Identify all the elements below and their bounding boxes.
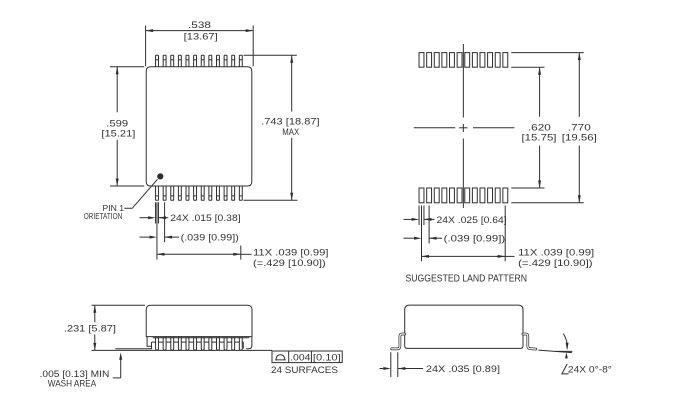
side view lead 3 bbox=[171, 338, 174, 350]
dimension .599 [15.21] body length bbox=[101, 67, 144, 186]
top view pin 6 (top row) bbox=[194, 55, 197, 67]
side view: wash area line bbox=[115, 346, 151, 348]
dimension .770 [19.56] outer pad span bbox=[511, 53, 597, 203]
end view: left gull-wing lead bbox=[392, 334, 405, 349]
side view lead 8 bbox=[209, 338, 212, 350]
side view lead 12 bbox=[239, 338, 242, 350]
top view pin 7 (bottom row) bbox=[201, 186, 204, 200]
land pad 7 (top row) bbox=[465, 53, 470, 68]
dimension 24X .015 [0.38] pin width bbox=[140, 202, 241, 224]
dimension 24X .035 [0.89] foot length bbox=[380, 352, 501, 377]
land pad 3 (bottom row) bbox=[434, 188, 439, 203]
top view pin 11 (top row) bbox=[232, 55, 235, 67]
land pad 2 (bottom row) bbox=[427, 188, 432, 203]
top view: package body outline bbox=[146, 67, 252, 186]
top view pin 10 (bottom row) bbox=[224, 186, 227, 200]
dimension .743 [18.87] MAX overall length bbox=[244, 55, 320, 200]
svg-text:(.039 [0.99]): (.039 [0.99]) bbox=[181, 233, 239, 244]
side view lead 6 bbox=[194, 338, 197, 350]
top view pin 6 (bottom row) bbox=[194, 186, 197, 200]
svg-text:11X .039 [0.99]: 11X .039 [0.99] bbox=[253, 247, 329, 258]
land pad 1 (bottom row) bbox=[419, 188, 424, 203]
land pad 11 (bottom row) bbox=[495, 188, 500, 203]
side view: lead shoulder line bbox=[153, 337, 250, 339]
land pattern horizontal centerline bbox=[414, 127, 515, 129]
top view pin 3 (top row) bbox=[171, 55, 174, 67]
top view pin 12 (bottom row) bbox=[239, 186, 242, 200]
land pad 12 (bottom row) bbox=[503, 188, 508, 203]
svg-text:MAX: MAX bbox=[282, 127, 299, 137]
land pad 9 (top row) bbox=[480, 53, 485, 68]
land pad 10 (top row) bbox=[488, 53, 493, 68]
svg-text:[15.75]: [15.75] bbox=[522, 133, 557, 144]
top view pin 5 (top row) bbox=[186, 55, 189, 67]
top view pin 8 (top row) bbox=[209, 55, 212, 67]
caption SUGGESTED LAND PATTERN bbox=[406, 274, 528, 285]
label 24 SURFACES bbox=[271, 365, 338, 376]
top view pin 4 (top row) bbox=[178, 55, 181, 67]
side view lead 1 bbox=[156, 338, 159, 350]
side view lead 9 bbox=[216, 338, 219, 350]
end view: right gull-wing lead bbox=[523, 334, 536, 349]
svg-text:11X .039 [0.99]: 11X .039 [0.99] bbox=[518, 247, 594, 258]
svg-text:(=.429 [10.90]): (=.429 [10.90]) bbox=[253, 258, 326, 269]
side view: lead frame rail line bbox=[152, 341, 244, 343]
top view pin 3 (bottom row) bbox=[171, 186, 174, 200]
svg-text:[0.10]: [0.10] bbox=[313, 352, 341, 363]
angle dimension arc 24X 0-8 deg bbox=[562, 334, 612, 376]
svg-text:24X .035 [0.89]: 24X .035 [0.89] bbox=[426, 364, 500, 375]
top view pin 1 (top row) bbox=[156, 55, 159, 67]
land pad 9 (bottom row) bbox=[480, 188, 485, 203]
land pad 8 (top row) bbox=[472, 53, 477, 68]
svg-text:24X .025 [0.64]: 24X .025 [0.64] bbox=[437, 215, 507, 226]
svg-text:(=.429 [10.90]): (=.429 [10.90]) bbox=[518, 258, 593, 269]
dimension (.039 [0.99]) pad pitch bbox=[404, 206, 506, 262]
side view lead 10 bbox=[224, 338, 227, 350]
side view lead 5 bbox=[186, 338, 189, 350]
svg-text:[15.21]: [15.21] bbox=[101, 129, 135, 140]
land pad 2 (top row) bbox=[427, 53, 432, 68]
top view pin 11 (bottom row) bbox=[232, 186, 235, 200]
top view pin 10 (top row) bbox=[224, 55, 227, 67]
svg-text:SUGGESTED LAND PATTERN: SUGGESTED LAND PATTERN bbox=[406, 274, 528, 285]
dimension (.039 [0.99]) pin pitch bbox=[140, 202, 239, 259]
land pad 12 (top row) bbox=[503, 53, 508, 68]
svg-text:.743 [18.87]: .743 [18.87] bbox=[261, 117, 320, 128]
land pad 5 (bottom row) bbox=[450, 188, 455, 203]
dimension .538 [13.67] package width bbox=[146, 20, 254, 67]
flatness feature control frame .004 [0.10] bbox=[272, 351, 342, 363]
land pad 11 (top row) bbox=[495, 53, 500, 68]
top view pin 9 (bottom row) bbox=[216, 186, 219, 200]
land pad 1 (top row) bbox=[419, 53, 424, 68]
side view lead 11 bbox=[232, 338, 235, 350]
top view pin 9 (top row) bbox=[216, 55, 219, 67]
svg-text:WASH AREA: WASH AREA bbox=[48, 379, 97, 390]
end view: package body outline bbox=[405, 305, 523, 348]
land pad 5 (top row) bbox=[450, 53, 455, 68]
svg-text:24 SURFACES: 24 SURFACES bbox=[271, 365, 338, 376]
top view pin 2 (top row) bbox=[163, 55, 166, 67]
dimension .620 [15.75] inner pad span bbox=[511, 67, 556, 188]
land pad 6 (bottom row) bbox=[457, 188, 462, 203]
dimension 24X .025 [0.64] pad width bbox=[404, 206, 507, 226]
svg-text:.231 [5.87]: .231 [5.87] bbox=[64, 324, 116, 335]
svg-text:[13.67]: [13.67] bbox=[184, 32, 218, 43]
land pad 4 (top row) bbox=[442, 53, 447, 68]
land pattern vertical centerline bbox=[462, 44, 464, 208]
svg-text:24X 0°-8°: 24X 0°-8° bbox=[568, 364, 612, 375]
land pad 8 (bottom row) bbox=[472, 188, 477, 203]
svg-text:.004: .004 bbox=[290, 352, 310, 363]
side view: body lower-right profile bbox=[243, 337, 252, 349]
land pad 3 (top row) bbox=[434, 53, 439, 68]
side view: seating plane line bbox=[92, 349, 273, 351]
side view: package body outline bbox=[146, 305, 252, 336]
lead angle reference lines 0 to 8 degrees bbox=[538, 350, 572, 353]
side view lead 2 bbox=[163, 338, 166, 350]
side view lead 4 bbox=[178, 338, 181, 350]
side view lead 7 bbox=[201, 338, 204, 350]
land pad 7 (bottom row) bbox=[465, 188, 470, 203]
dimension .231 [5.87] height bbox=[64, 305, 145, 350]
top view pin 1 (bottom row) bbox=[156, 186, 159, 200]
svg-text:(.039 [0.99]): (.039 [0.99]) bbox=[444, 234, 506, 245]
svg-text:ORIETATION: ORIETATION bbox=[84, 212, 123, 221]
leader .005 [0.13] MIN wash area bbox=[40, 352, 123, 389]
dimension 11X .039 pad span bbox=[422, 206, 595, 269]
svg-text:24X .015 [0.38]: 24X .015 [0.38] bbox=[170, 213, 240, 224]
svg-text:[19.56]: [19.56] bbox=[562, 133, 597, 144]
top view pin 2 (bottom row) bbox=[163, 186, 166, 200]
top view pin 7 (top row) bbox=[201, 55, 204, 67]
land pad 6 (top row) bbox=[457, 53, 462, 68]
pin 1 label and leader bbox=[84, 179, 158, 221]
top view pin 5 (bottom row) bbox=[186, 186, 189, 200]
pin 1 orientation dot bbox=[157, 173, 163, 179]
top view pin 4 (bottom row) bbox=[178, 186, 181, 200]
land pad 4 (bottom row) bbox=[442, 188, 447, 203]
side view: body lower-left step profile bbox=[147, 337, 151, 347]
dimension 11X .039 span bbox=[157, 246, 329, 269]
land pad 10 (bottom row) bbox=[488, 188, 493, 203]
top view pin 8 (bottom row) bbox=[209, 186, 212, 200]
top view pin 12 (top row) bbox=[239, 55, 242, 67]
svg-text:.538: .538 bbox=[188, 20, 211, 31]
